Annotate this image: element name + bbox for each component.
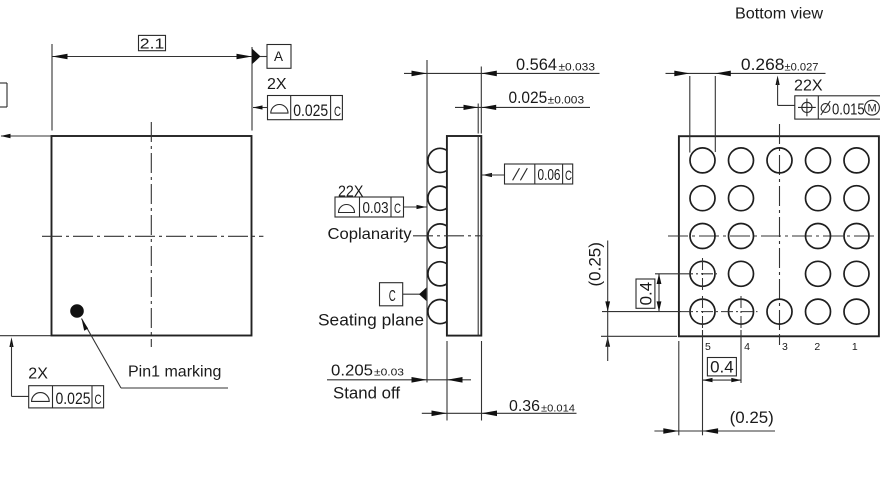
svg-text:0.205: 0.205 — [331, 363, 373, 380]
svg-text:Coplanarity: Coplanarity — [328, 226, 412, 243]
bottom view horizontal centerline — [668, 235, 878, 237]
svg-text:C: C — [389, 288, 396, 305]
ball row A — [690, 148, 869, 173]
datum C frame and triangle — [380, 283, 427, 306]
FCF profile 0.025 C (bottom left) — [29, 386, 104, 408]
top view vertical centerline — [150, 122, 152, 347]
svg-text:3: 3 — [782, 341, 788, 353]
svg-text:(0.25): (0.25) — [587, 242, 605, 286]
svg-text:2.1: 2.1 — [140, 35, 165, 52]
svg-text:0.06: 0.06 — [538, 167, 561, 184]
FCF parallelism 0.06 C — [482, 164, 573, 184]
svg-text:A: A — [274, 49, 283, 64]
dim 2.1 basic box and value — [139, 35, 166, 52]
svg-text:2X: 2X — [28, 366, 48, 383]
svg-text:C: C — [334, 103, 341, 119]
dim 0.36 — [422, 398, 577, 416]
FCF position dia 0.015 M — [776, 76, 880, 120]
bottom view vertical centerline — [779, 124, 781, 341]
bottom edge extension (left) — [0, 335, 51, 337]
dim 0.205 Stand off — [327, 363, 471, 403]
svg-text:0.025: 0.025 — [56, 389, 91, 408]
FCF profile 0.025 C (top right) — [253, 96, 343, 120]
dim (0.25) horizontal — [654, 409, 775, 434]
svg-text:0.025: 0.025 — [509, 89, 548, 107]
dim 0.025 — [455, 89, 590, 133]
top view horizontal centerline — [42, 235, 263, 237]
svg-text:5: 5 — [705, 341, 711, 353]
Bottom view title — [735, 6, 823, 23]
svg-text:C: C — [394, 200, 401, 216]
22X count label (side view) — [338, 184, 364, 201]
dim 2.1 dimension line — [52, 54, 252, 60]
FCF profile 0.03 C (coplanarity) — [335, 197, 427, 217]
row D extension line — [655, 273, 717, 275]
datum A triangle and leader — [252, 49, 267, 65]
dim 0.4 vertical — [636, 274, 661, 312]
svg-text:0.03: 0.03 — [363, 200, 389, 217]
svg-text:0.268: 0.268 — [741, 56, 785, 74]
ball column numbers — [705, 341, 858, 353]
top view package outline — [52, 136, 252, 336]
svg-text:M: M — [868, 103, 877, 115]
ball centermark extension column 5 — [702, 296, 704, 435]
side view solder bumps — [428, 148, 452, 323]
row E extension line — [602, 311, 758, 313]
Pin1 leader — [82, 319, 229, 389]
dim 0.268 extension lines — [690, 76, 716, 153]
svg-text:±0.033: ±0.033 — [559, 61, 596, 73]
svg-text:0.4: 0.4 — [637, 282, 656, 306]
column 3 tick below edge — [779, 336, 781, 345]
svg-text:0.4: 0.4 — [710, 358, 734, 377]
ball centermark extension column 4 — [740, 296, 742, 383]
svg-text:±0.03: ±0.03 — [374, 367, 404, 379]
22X count label (bottom view) — [794, 77, 823, 94]
bottom view package outline — [679, 136, 879, 336]
svg-text:Pin1 marking: Pin1 marking — [128, 364, 221, 381]
svg-text:C: C — [565, 167, 572, 183]
svg-text:0.015: 0.015 — [832, 102, 865, 119]
Coplanarity label — [328, 226, 412, 243]
dim 0.564 — [404, 56, 600, 134]
2X count label (bottom left) — [28, 366, 48, 383]
side view centerline — [413, 235, 483, 237]
bottom edge extension (bottom view) — [601, 335, 677, 337]
ball row C — [690, 224, 869, 249]
dim (0.25) vertical — [587, 241, 611, 362]
cut-off feature frame fragment (left edge) — [0, 83, 7, 107]
svg-text:2: 2 — [814, 341, 820, 353]
2X count label (top right) — [267, 76, 287, 93]
dim 0.4 horizontal boxed — [703, 358, 742, 383]
svg-text:Stand off: Stand off — [333, 385, 400, 403]
svg-text:4: 4 — [744, 341, 750, 353]
bottom-left FCF leader — [9, 337, 28, 396]
svg-text:0.564: 0.564 — [516, 56, 557, 74]
seating plane line — [426, 60, 428, 383]
svg-text:C: C — [95, 391, 102, 407]
dim 0.268 dimension line — [666, 56, 826, 76]
svg-text:±0.027: ±0.027 — [785, 61, 819, 73]
datum A frame — [267, 45, 291, 69]
die back coating line — [477, 136, 479, 336]
svg-text:22X: 22X — [338, 184, 364, 201]
ball row E — [690, 299, 869, 324]
leader to top-left corner — [1, 134, 52, 138]
svg-text:Seating plane: Seating plane — [318, 312, 424, 330]
left edge extension line down — [678, 341, 680, 435]
Pin1 marking dot — [70, 304, 84, 318]
ball row D — [690, 261, 869, 286]
svg-text:Bottom view: Bottom view — [735, 6, 823, 23]
svg-text:±0.003: ±0.003 — [548, 95, 584, 107]
svg-text:0.025: 0.025 — [293, 101, 328, 120]
svg-text:0.36: 0.36 — [509, 398, 540, 415]
svg-text:22X: 22X — [794, 77, 823, 94]
svg-text:±0.014: ±0.014 — [541, 402, 575, 414]
ball centermark column 5 — [702, 258, 704, 291]
ball row B — [690, 186, 869, 211]
Pin1 marking label — [128, 364, 221, 381]
Seating plane label — [318, 312, 424, 330]
dim 2.1 extension lines — [52, 44, 252, 131]
svg-text:1: 1 — [852, 341, 858, 353]
svg-text:2X: 2X — [267, 76, 287, 93]
extension lines below die — [447, 341, 482, 421]
svg-text:(0.25): (0.25) — [730, 409, 774, 427]
die body (side view) — [447, 136, 481, 336]
